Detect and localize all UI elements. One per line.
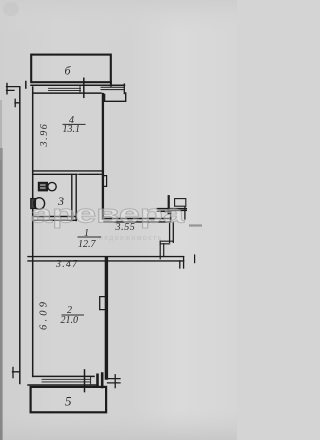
entry niche horizontal: [160, 241, 173, 244]
svg-text:аревера: аревера: [31, 199, 185, 229]
hallway top wall right part: [104, 219, 171, 222]
room4 right wall: [102, 94, 104, 219]
balcony B6: [31, 55, 111, 83]
left edge dark streak: [0, 148, 3, 440]
sink bowl circle: [48, 182, 56, 190]
toilet bowl: [34, 198, 45, 210]
entry doorway upper jog: [171, 210, 187, 222]
doorway end tick: [184, 207, 186, 219]
entry right side wall double: [170, 222, 174, 242]
bottom window glazing: [42, 376, 91, 385]
isolated tick right: [194, 255, 196, 263]
svg-text:недвижимость: недвижимость: [99, 235, 163, 242]
svg-text:3.96: 3.96: [39, 123, 50, 148]
svg-text:21.0: 21.0: [61, 315, 79, 326]
watermark arevera: [31, 199, 185, 229]
entry niche vertical double: [160, 241, 164, 259]
top window glazing lines: [49, 85, 81, 93]
room3 bottom wall: [33, 217, 76, 221]
hallway bottom wall: [28, 257, 184, 261]
svg-text:3.55: 3.55: [115, 222, 136, 233]
fraction line room1: [78, 236, 102, 238]
svg-text:б: б: [65, 64, 72, 78]
paper background: [0, 0, 237, 440]
svg-text:13.1: 13.1: [63, 124, 81, 135]
top window band inner line: [33, 92, 101, 94]
watermark dash: [189, 224, 202, 226]
staircase wall stub vertical: [168, 196, 170, 213]
top band right end tick: [123, 84, 125, 94]
bottom window tick: [84, 370, 86, 392]
labels: [39, 64, 136, 409]
room2 right wall: [105, 259, 108, 378]
top band right triple lines: [101, 87, 125, 89]
balcony right edge connector: [110, 82, 112, 86]
sink symbol: [39, 183, 48, 191]
svg-text:3: 3: [57, 194, 64, 208]
right stub bottom: [108, 375, 121, 388]
top-left smudge: [3, 2, 19, 16]
fraction line room2: [62, 314, 85, 316]
left wall tick lower: [13, 367, 20, 377]
room2 wall notch: [100, 297, 105, 310]
left stub tick: [6, 84, 8, 94]
top window band outer line: [31, 84, 125, 86]
door threshold room4: [98, 173, 103, 175]
left wall corner step: [20, 82, 26, 384]
svg-text:5: 5: [65, 394, 72, 409]
bottom wall right jog down: [180, 257, 184, 268]
svg-text:6.09: 6.09: [39, 299, 50, 330]
left inner wall line: [32, 87, 34, 376]
svg-text:3.47: 3.47: [55, 259, 78, 270]
left wall tick upper: [15, 99, 20, 106]
balcony 5: [31, 387, 107, 412]
right wall top step: [105, 93, 126, 101]
bottom window band: [33, 375, 94, 377]
svg-text:12.7: 12.7: [78, 239, 97, 250]
staircase block: [175, 199, 186, 207]
fraction line room4: [63, 123, 86, 125]
left outer wall stub top: [7, 87, 20, 91]
right wall bump at y180: [104, 176, 107, 187]
wall between room4 and room3: [33, 171, 102, 174]
room3 right wall double: [72, 174, 76, 220]
bottom right wall junction: [98, 374, 103, 388]
top window tick: [83, 78, 85, 97]
toilet tank: [31, 199, 36, 209]
